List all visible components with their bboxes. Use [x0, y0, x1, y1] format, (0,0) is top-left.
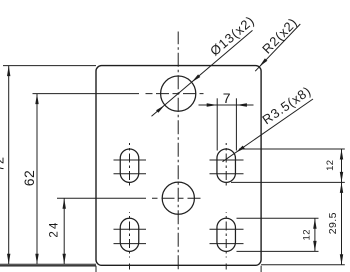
- extension line 7 dim left vertical: [216, 98, 218, 150]
- arrow 72 up: [7, 66, 10, 77]
- arrow leader R3.5 (points down-left at slot arc): [236, 146, 245, 153]
- svg-text:29.5: 29.5: [327, 212, 339, 234]
- extension line right dim 29.5 top (slot bottom apex): [231, 181, 345, 183]
- arrow 7 right pointing left: [236, 103, 247, 106]
- centerline slot top-left vertical: [129, 143, 131, 189]
- svg-text:12: 12: [325, 160, 336, 171]
- leader line R2: [255, 24, 300, 71]
- arrow right 12 up: [340, 149, 343, 160]
- arrow inner 12 up: [313, 218, 316, 229]
- slot top-right: [217, 149, 236, 182]
- slot arc tick right col y=160.0: [210, 159, 244, 161]
- plate outline: [96, 66, 261, 266]
- centerline slot bottom-right vertical: [225, 212, 227, 257]
- arrow 24 up: [63, 198, 66, 209]
- extension line inner 12 top: [237, 217, 319, 219]
- slot arc tick left col y=243.6: [114, 243, 147, 245]
- arrow 72 down: [7, 254, 10, 265]
- dimension line inner 12: [314, 218, 316, 251]
- svg-text:62: 62: [21, 170, 37, 186]
- projection stub below slot-left column: [129, 264, 131, 272]
- slot arc tick left col y=160.0: [114, 159, 147, 161]
- centerline slot bottom-left vertical: [129, 212, 131, 257]
- extension line bottom edge extended right: [261, 264, 345, 266]
- extension line plate top edge extended left: [3, 65, 96, 67]
- arrow 62 up: [35, 94, 38, 105]
- arrow right 12 down: [340, 172, 343, 183]
- extension line 24 (middle circle centerline extended left): [57, 197, 146, 199]
- extension line inner 12 bottom: [237, 250, 319, 252]
- slot arc tick right col y=243.6: [210, 243, 244, 245]
- dimension line 24: [63, 198, 65, 264]
- projection stub below plate left edge: [95, 266, 97, 272]
- hole top circle (diam 13): [161, 76, 196, 111]
- svg-text:7: 7: [223, 90, 231, 106]
- arrow 62 down: [35, 254, 38, 265]
- dimension line 7: [199, 104, 254, 106]
- arrow leader diameter upper (points down-left at circle): [192, 74, 201, 82]
- arrow 24 down: [63, 254, 66, 265]
- slot bottom-right: [217, 218, 236, 251]
- extension line bottom-left (dimension datum): [0, 263, 96, 265]
- extension line 7 dim right vertical: [235, 98, 237, 150]
- arrow 29.5 down: [340, 254, 343, 265]
- svg-text:24: 24: [48, 222, 60, 238]
- hole middle circle: [162, 182, 194, 214]
- projection stub below plate right edge: [260, 266, 262, 272]
- arrow 7 left pointing right: [207, 103, 218, 106]
- svg-text:Ø13(x2): Ø13(x2): [207, 13, 257, 59]
- centerline horizontal top circle: [146, 93, 204, 95]
- svg-text:R2(x2): R2(x2): [259, 15, 300, 57]
- slot arc tick right col y=229.2: [210, 228, 244, 230]
- centerline vertical main axis: [177, 32, 179, 272]
- extension line 62 (top circle centerline extended left): [33, 93, 140, 95]
- leader line diameter 13: [152, 30, 253, 116]
- leader line R3.5: [223, 99, 314, 162]
- svg-text:72: 72: [0, 157, 7, 172]
- arrow 29.5 up: [340, 182, 343, 193]
- arrow inner 12 down: [313, 241, 316, 252]
- slot bottom-left: [120, 218, 139, 251]
- slot arc tick left col y=173.8: [114, 173, 147, 175]
- dimension line 72: [8, 66, 10, 265]
- projection stub below slot-right column: [225, 264, 227, 272]
- svg-text:R3.5(x8): R3.5(x8): [259, 83, 313, 127]
- svg-text:12: 12: [302, 229, 313, 240]
- slot arc tick right col y=173.8: [210, 173, 244, 175]
- dimension line 62: [36, 94, 38, 265]
- centerline slot top-right vertical: [225, 143, 227, 189]
- centerline horizontal middle circle: [152, 197, 203, 199]
- arrow leader diameter lower (points up-right at circle): [156, 105, 165, 113]
- edge of lower view (cropped) bottom-left: [0, 265, 96, 267]
- arrow leader R2 (points down-left at corner): [259, 58, 267, 66]
- dimension line right outer 12 and 29.5: [341, 149, 343, 265]
- slot arc tick left col y=229.2: [114, 228, 147, 230]
- slot top-left: [120, 149, 139, 182]
- extension line right dim 12 top (slot top apex): [239, 148, 345, 150]
